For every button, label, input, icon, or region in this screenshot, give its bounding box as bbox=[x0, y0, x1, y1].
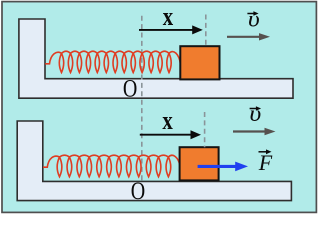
velocity vector label v (bottom) bbox=[249, 101, 261, 127]
displacement arrow x (bottom) bbox=[140, 130, 201, 139]
top track (wall + floor) bbox=[19, 19, 293, 98]
velocity arrow (bottom) bbox=[233, 128, 276, 135]
svg-text:υ: υ bbox=[249, 101, 261, 127]
dashed equilibrium line through O (spans both panels) bbox=[141, 16, 143, 182]
label F (force) bbox=[258, 149, 273, 175]
bottom track (wall + floor) bbox=[17, 121, 291, 201]
svg-text:F: F bbox=[258, 150, 273, 175]
spring S2 (bottom) bbox=[43, 155, 180, 177]
velocity vector label v (top) bbox=[247, 6, 259, 32]
velocity arrow (top) bbox=[227, 33, 270, 40]
spring S1 (top) bbox=[45, 51, 180, 72]
svg-text:υ: υ bbox=[248, 6, 260, 32]
dashed line at top block centre bbox=[205, 15, 207, 47]
dashed line at bottom block centre bbox=[204, 112, 206, 147]
block M2 (bottom mass) bbox=[180, 147, 219, 180]
displacement arrow x (top) bbox=[139, 25, 203, 34]
block M1 (top mass) bbox=[180, 46, 219, 79]
svg-text:O: O bbox=[131, 177, 145, 205]
svg-text:x: x bbox=[162, 107, 173, 136]
force arrow F (blue) bbox=[198, 162, 248, 172]
svg-text:x: x bbox=[163, 3, 174, 32]
svg-text:O: O bbox=[123, 74, 137, 102]
